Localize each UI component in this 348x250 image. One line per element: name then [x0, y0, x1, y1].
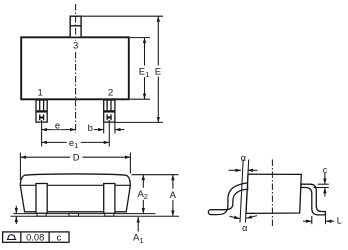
svg-text:A: A	[170, 190, 177, 201]
svg-text:c: c	[323, 165, 328, 175]
svg-text:α: α	[241, 153, 246, 163]
svg-text:2: 2	[108, 87, 113, 98]
svg-text:D: D	[73, 152, 80, 163]
svg-text:3: 3	[73, 41, 78, 52]
svg-text:E: E	[155, 67, 161, 78]
svg-text:1: 1	[38, 87, 43, 98]
svg-text:L: L	[337, 216, 342, 226]
svg-text:α: α	[242, 223, 247, 233]
svg-text:e: e	[55, 121, 60, 132]
svg-text:c: c	[57, 233, 62, 243]
svg-text:0.08: 0.08	[26, 233, 44, 243]
svg-text:b: b	[88, 123, 93, 134]
